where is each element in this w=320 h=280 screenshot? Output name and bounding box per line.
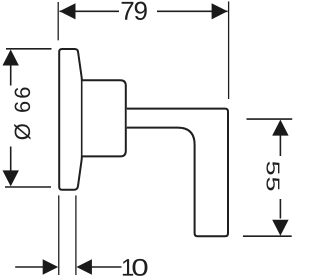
arrow 55 up <box>272 120 288 136</box>
extension line right (79 dim) <box>228 1 230 99</box>
arrow dia66 up <box>3 50 19 66</box>
arrow 55 down <box>272 220 288 236</box>
arrow 10 left <box>43 259 59 275</box>
dimension line dia 66 <box>10 64 12 86</box>
extension line left (10 dim) <box>58 195 60 275</box>
extension line right (10 dim) <box>75 195 77 275</box>
tick bottom (55 dim) <box>243 235 292 237</box>
tick bottom (dia 66) <box>5 186 51 188</box>
arrow 79 right <box>212 3 228 19</box>
dimension line 79 <box>60 10 120 12</box>
label 79 <box>122 2 147 20</box>
escutcheon side profile <box>59 49 82 190</box>
dimension line 55 <box>279 135 281 156</box>
extension line left (79 dim) <box>57 2 59 40</box>
arrow 79 left <box>60 3 76 19</box>
arrow dia66 down <box>3 170 19 186</box>
label dia 66 <box>14 88 30 140</box>
handle hub <box>83 80 126 156</box>
label 55 <box>266 162 279 191</box>
label 10 <box>123 259 148 276</box>
lever handle <box>127 109 228 237</box>
arrow 10 right <box>76 259 92 275</box>
tick top (55 dim) <box>247 118 293 120</box>
dimension line 10 <box>15 266 43 268</box>
tick top (dia 66) <box>6 48 52 50</box>
